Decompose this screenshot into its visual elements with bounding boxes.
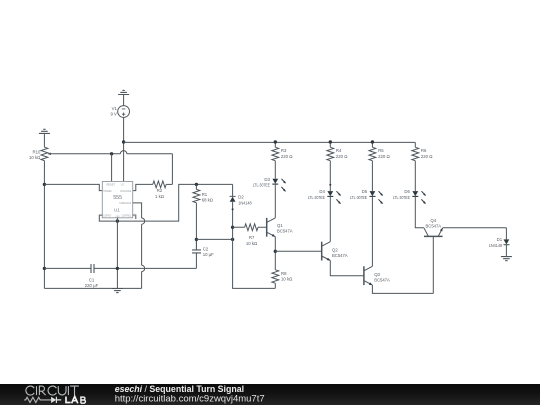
svg-text:CONTROL: CONTROL (122, 213, 132, 217)
svg-text:1 kΩ: 1 kΩ (155, 194, 165, 199)
svg-text:LTL-307EE: LTL-307EE (393, 195, 410, 200)
wire D6 to Q4 collector (415, 196, 424, 227)
capacitor C2 10 uF (192, 239, 214, 257)
resistor R8 10 k (272, 270, 293, 289)
svg-text:LTL-307EE: LTL-307EE (308, 195, 325, 200)
wire V1 top lead (123, 95, 125, 106)
svg-text:9 V: 9 V (110, 112, 117, 117)
wire C1 to C2 bottom (94, 253, 196, 269)
svg-text:RESET: RESET (107, 183, 116, 187)
svg-text:D2: D2 (238, 195, 244, 200)
diode D1 1N4148 (489, 237, 510, 248)
wire R10 bottom column (43, 161, 45, 289)
transistor Q3 BC547A (364, 266, 390, 285)
ground (bottom rail) (112, 289, 123, 293)
wire V1 to rail and VCC pin (123, 117, 125, 181)
logo diode symbol (51, 397, 56, 403)
svg-text:R8: R8 (281, 271, 287, 276)
svg-text:Q2: Q2 (332, 248, 338, 253)
svg-text:R1: R1 (202, 192, 208, 197)
pin CONTROL stub (133, 215, 136, 219)
svg-text:VCC: VCC (121, 183, 125, 187)
svg-text:220 Ω: 220 Ω (281, 154, 293, 159)
svg-text:220 Ω: 220 Ω (378, 154, 390, 159)
node R3 rail junction (274, 140, 277, 143)
wire D2 column down to bottom rail (233, 202, 276, 289)
capacitor C1 220 uF (85, 264, 99, 288)
svg-text:555: 555 (113, 195, 122, 201)
svg-text:R7: R7 (249, 235, 255, 240)
wire main power rail (124, 141, 416, 143)
wire THRESHOLD down to bottom rail (133, 203, 142, 289)
logo LAB text (66, 396, 85, 403)
wire bottom-left ground rail (44, 287, 141, 289)
svg-text:C1: C1 (89, 277, 95, 282)
svg-text:V1: V1 (112, 106, 118, 111)
resistor R2 1 k (153, 181, 166, 199)
ground (above V1) (118, 90, 129, 94)
resistor R4 220 (327, 142, 348, 191)
wire Q1 emitter to R8 (274, 237, 276, 270)
svg-text:D5: D5 (362, 189, 368, 194)
node TRIGGER junction (43, 183, 46, 186)
transistor Q4 BC547A (424, 218, 443, 236)
svg-text:1N4148: 1N4148 (489, 243, 503, 248)
transistor Q1 BC547A (267, 218, 293, 237)
ground (above R10) (39, 129, 50, 133)
svg-text:R3: R3 (281, 148, 287, 153)
svg-text:Q1: Q1 (277, 223, 283, 228)
svg-text:BC547A: BC547A (332, 253, 348, 258)
node R7 junction (231, 226, 234, 229)
node R5 rail junction (371, 140, 374, 143)
svg-text:D3: D3 (264, 177, 270, 182)
diode D2 1N4148 (230, 184, 253, 205)
svg-text:http://circuitlab.com/c9zwqvj4: http://circuitlab.com/c9zwqvj4mu7t7 (115, 394, 265, 405)
svg-text:220 Ω: 220 Ω (336, 154, 348, 159)
node R1-C2 junction (195, 238, 198, 241)
wire R1-C2 to D2 column (196, 238, 232, 240)
svg-text:D6: D6 (404, 189, 410, 194)
svg-text:R6: R6 (421, 148, 427, 153)
logo resistor symbol (24, 397, 51, 402)
resistor R1 68 k (193, 184, 214, 239)
svg-text:esechi / Sequential Turn Signa: esechi / Sequential Turn Signal (115, 384, 244, 394)
logo CIRCUIT text (26, 386, 79, 395)
resistor R3 220 (272, 142, 293, 178)
wire Q2 base wire (275, 250, 321, 252)
node Q2 base junction (274, 250, 277, 253)
svg-text:Q4: Q4 (430, 218, 436, 223)
wire Q3 emitter to Q4 base (372, 236, 433, 293)
svg-text:R10: R10 (33, 149, 41, 154)
LED D3 LTL-307EE (253, 177, 286, 192)
svg-text:R5: R5 (378, 148, 384, 153)
potentiometer R10 10 k (29, 147, 51, 160)
svg-text:LTL-307EE: LTL-307EE (350, 195, 367, 200)
ground (D1) (501, 257, 512, 261)
svg-text:OUTPUT: OUTPUT (103, 213, 111, 217)
svg-text:10 kΩ: 10 kΩ (246, 241, 258, 246)
node D2 column junction (231, 238, 234, 241)
svg-text:C2: C2 (203, 246, 209, 251)
svg-text:68 kΩ: 68 kΩ (202, 198, 214, 203)
node rail junction at V1 (122, 140, 125, 143)
resistor R5 220 (369, 142, 390, 191)
svg-text:220 Ω: 220 Ω (421, 154, 433, 159)
node wiper-RESET junction (110, 152, 113, 155)
node GND-output junction (116, 219, 119, 222)
wire OUTPUT to D2 rail (99, 184, 232, 221)
svg-text:Q3: Q3 (374, 272, 380, 277)
transistor Q2 BC547A (322, 242, 348, 261)
svg-text:D4: D4 (319, 189, 325, 194)
wire D5 to Q3 collector (371, 196, 373, 266)
svg-text:DISCHARGE: DISCHARGE (120, 189, 131, 193)
wire hop over C1 wire (142, 265, 145, 271)
svg-text:THRESHOLD: THRESHOLD (119, 201, 131, 205)
LED D5 LTL-307EE (350, 189, 383, 204)
svg-text:U1: U1 (114, 208, 120, 213)
wire TRIGGER to left column (44, 184, 102, 190)
wire R2 right lead (166, 183, 172, 185)
svg-text:R2: R2 (157, 188, 163, 193)
wire Q4 emitter to D1 (443, 228, 507, 240)
resistor R6 220 (412, 142, 433, 191)
wire R10 top lead (43, 133, 45, 147)
svg-text:GND: GND (116, 214, 120, 218)
node R1 top junction (195, 183, 198, 186)
node GND-C1 junction (116, 267, 119, 270)
LED D4 LTL-307EE (308, 189, 341, 204)
node C1 left junction (43, 267, 46, 270)
footer bar (0, 384, 540, 405)
svg-text:BC547A: BC547A (374, 278, 390, 283)
resistor R7 10 k (233, 224, 267, 246)
svg-text:TRIGGER: TRIGGER (103, 189, 112, 193)
LED D6 LTL-307EE (393, 189, 426, 204)
op-amp U1 555 timer box (102, 182, 132, 219)
svg-text:BC547A: BC547A (426, 223, 442, 228)
wire R10 wiper to RESET and R2 (48, 154, 172, 185)
voltage source V1 9 V (110, 106, 129, 118)
svg-text:10 kΩ: 10 kΩ (29, 155, 41, 160)
wire hop over output wire (142, 218, 145, 224)
svg-text:R4: R4 (336, 148, 342, 153)
wire C1 left lead (44, 267, 91, 269)
wire DISCHARGE to R2 (133, 184, 153, 190)
wire Q2 emitter to Q3 base (330, 261, 364, 276)
wire D1 to ground (505, 245, 507, 257)
wire D3 to Q1 collector (274, 184, 276, 218)
wire RESET pin (111, 154, 113, 182)
wire D4 to Q2 collector (329, 196, 331, 241)
node R4 rail junction (329, 140, 332, 143)
svg-text:D1: D1 (497, 237, 503, 242)
svg-text:220 µF: 220 µF (85, 283, 99, 288)
svg-text:BC547A: BC547A (277, 229, 293, 234)
wire hop over VCC wire (120, 151, 126, 154)
svg-text:10 µF: 10 µF (203, 252, 214, 257)
wire GND pin down (116, 218, 118, 289)
svg-text:1N4148: 1N4148 (238, 200, 252, 205)
svg-text:LTL-307EE: LTL-307EE (253, 183, 270, 188)
svg-text:10 kΩ: 10 kΩ (281, 277, 293, 282)
